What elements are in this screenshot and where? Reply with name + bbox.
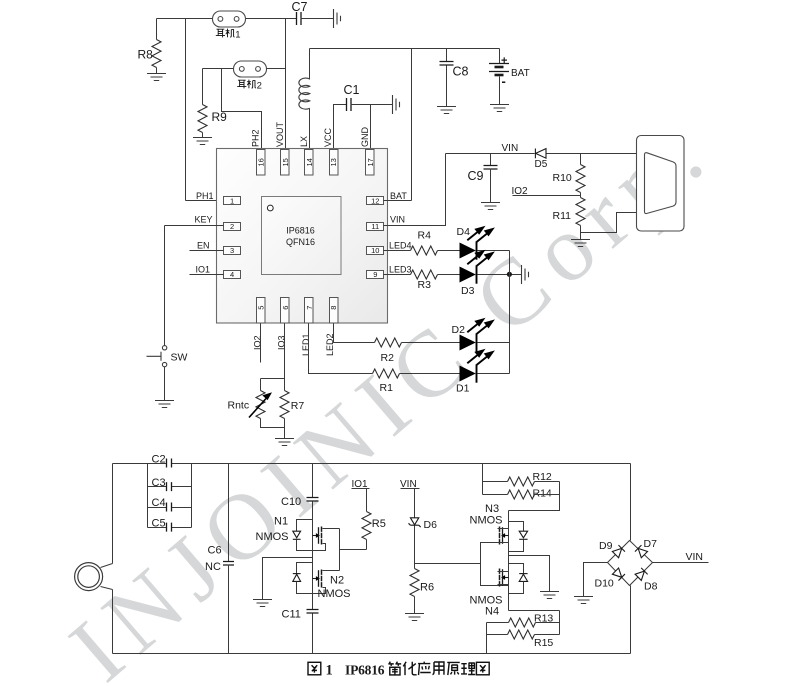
pin 14 — [305, 150, 314, 176]
wire R3 to D3 — [438, 274, 460, 276]
svg-text:R8: R8 — [138, 48, 154, 62]
wire C5 row — [148, 527, 192, 529]
svg-text:12: 12 — [371, 197, 379, 206]
diode D8 — [635, 568, 648, 581]
pin 16 — [257, 150, 266, 176]
svg-text:17: 17 — [366, 158, 375, 166]
wire node to N3N4 box — [415, 563, 481, 565]
wire N3 diode branch top — [509, 522, 524, 532]
wire N4 drain — [498, 571, 509, 573]
label 耳机2 — [237, 80, 256, 89]
ground C7 — [334, 9, 341, 28]
ground R9 — [193, 138, 212, 145]
svg-text:BAT: BAT — [390, 191, 407, 201]
wire VIN horizontal — [446, 153, 535, 155]
svg-text:C1: C1 — [344, 83, 360, 97]
svg-text:R14: R14 — [533, 488, 552, 500]
wire PH2 to pin 16 — [222, 69, 262, 150]
svg-text:5: 5 — [257, 306, 266, 310]
diode D5 — [535, 149, 546, 159]
junction node LED common — [507, 272, 512, 277]
wire N4 to R13R15 rail — [509, 610, 560, 612]
wire VIN to R10 — [580, 154, 582, 165]
switch SW — [147, 346, 167, 367]
wire bridge VIN output — [653, 562, 709, 564]
svg-text:N1: N1 — [274, 516, 288, 528]
svg-text:8: 8 — [329, 306, 338, 310]
pin 2 — [224, 223, 241, 231]
svg-text:R3: R3 — [418, 279, 432, 291]
svg-text:9: 9 — [373, 270, 377, 279]
capacitor C11 — [307, 610, 319, 614]
wire C9 to ground — [490, 169, 492, 203]
resistor R6 — [410, 569, 419, 597]
wire pin 10 LED4 — [384, 250, 411, 252]
svg-text:-: - — [502, 74, 506, 89]
wire node Rntc top — [261, 378, 285, 380]
capacitor C5 — [167, 523, 172, 532]
svg-text:R6: R6 — [420, 582, 434, 594]
wire D1 to bus — [478, 373, 510, 375]
wire KEY — [165, 225, 224, 227]
svg-text:C11: C11 — [282, 609, 301, 621]
wire R2 to D2 — [402, 342, 460, 344]
connector J1 — [637, 136, 685, 232]
svg-text:R7: R7 — [291, 400, 305, 412]
wire R8 to ground — [156, 68, 158, 74]
resistor R11 — [576, 198, 585, 226]
svg-text:D6: D6 — [424, 519, 438, 531]
ground C9 — [481, 203, 500, 210]
ground N3 — [540, 592, 559, 599]
svg-text:D3: D3 — [461, 285, 475, 297]
ground R7 — [275, 439, 294, 446]
svg-text:PH2: PH2 — [251, 129, 261, 147]
wire 耳机2 right — [267, 68, 286, 70]
svg-text:NMOS: NMOS — [256, 531, 289, 543]
wire N3N4 box — [481, 543, 509, 586]
svg-text:10: 10 — [371, 246, 379, 255]
wire N3 diode branch bottom — [509, 540, 524, 552]
wire cap bank right rail — [191, 464, 193, 528]
ground R11 — [571, 240, 590, 247]
wire VIN to C9 — [490, 154, 492, 166]
capacitor C6 — [223, 562, 234, 566]
wire C7 to ground — [301, 18, 334, 20]
wire R15 right — [535, 634, 560, 636]
ground SW — [155, 401, 174, 408]
wire pin 11 VIN up — [384, 154, 446, 226]
capacitor C4 — [167, 503, 172, 512]
svg-text:VIN: VIN — [686, 551, 704, 563]
wire pin 12 BAT — [384, 200, 412, 202]
diode N1 body — [293, 531, 301, 539]
diode N3 body — [519, 531, 527, 539]
svg-text:Rntc: Rntc — [228, 400, 250, 412]
diode D9 — [612, 545, 625, 558]
wire IO1 underline — [352, 488, 370, 490]
svg-text:D8: D8 — [644, 581, 658, 593]
wire R1 to D1 — [400, 373, 460, 375]
ground R8 — [147, 74, 166, 81]
svg-text:C2: C2 — [152, 454, 166, 466]
ground N1N2 — [253, 600, 272, 607]
wire C4 row — [148, 507, 192, 509]
svg-text:R1: R1 — [380, 382, 394, 394]
coil TX antenna — [75, 563, 103, 591]
wire N3 source — [498, 542, 509, 544]
pin 15 — [281, 150, 290, 176]
wire EN stub — [190, 250, 224, 252]
svg-text:LX: LX — [299, 136, 309, 147]
svg-text:IO2: IO2 — [512, 186, 529, 197]
wire R9 to ground — [202, 133, 204, 138]
wire rail to inductor — [309, 49, 311, 80]
resistor R9 — [198, 105, 207, 133]
capacitor C8 — [440, 62, 454, 66]
wire D4 to bus — [478, 250, 510, 252]
wire IO1 to R5 — [366, 489, 368, 512]
transistor N4 NMOS — [500, 569, 509, 587]
wire N1N2 midpoint to ground — [263, 558, 313, 600]
svg-text:VIN: VIN — [502, 143, 519, 154]
wire VIN underline — [401, 488, 420, 490]
zener diode D6 — [409, 518, 421, 527]
connector J1 contact — [645, 153, 677, 214]
LED D4 — [460, 227, 493, 259]
wire D3 to ground — [478, 274, 522, 276]
svg-text:D7: D7 — [644, 538, 658, 550]
wire N1 diode branch bottom — [297, 540, 313, 551]
svg-text:EN: EN — [197, 240, 210, 250]
wire SW to ground — [164, 367, 166, 401]
ground R6 — [405, 614, 424, 621]
svg-text:C4: C4 — [152, 497, 166, 509]
svg-text:C7: C7 — [292, 0, 308, 14]
svg-text:C6: C6 — [208, 545, 222, 557]
svg-text:N4: N4 — [485, 606, 499, 618]
svg-text:R10: R10 — [553, 172, 572, 184]
resistor R2 — [375, 338, 402, 347]
resistor R8 — [152, 40, 161, 68]
pin 11 — [367, 223, 384, 231]
resistor R13 — [509, 618, 536, 627]
wire box to R5 — [340, 549, 367, 551]
ground battery — [490, 105, 509, 112]
wire N4 diode branch top — [509, 564, 524, 574]
LED D3 — [460, 251, 493, 283]
wire to R9 — [202, 69, 204, 105]
wire N1 drain — [323, 528, 340, 530]
svg-text:R5: R5 — [372, 518, 386, 530]
U1 pin1 marker — [267, 205, 273, 211]
wire D6 down — [414, 526, 416, 564]
svg-text:SW: SW — [171, 352, 188, 364]
wire net PH1 top-left — [157, 18, 213, 20]
wire R14 right — [535, 494, 560, 496]
ground C8 — [437, 107, 456, 114]
wire R10 to node — [580, 193, 582, 198]
pin 4 — [224, 271, 241, 279]
resistor R3 — [411, 270, 438, 279]
svg-text:C5: C5 — [152, 517, 166, 529]
svg-text:C9: C9 — [468, 169, 484, 183]
wire pin 8 LED2 — [334, 324, 375, 343]
resistor R7 — [280, 391, 289, 419]
wire to R8 — [156, 19, 158, 40]
svg-text:+: + — [501, 55, 507, 67]
resistor R1 — [373, 369, 400, 378]
connector 耳机1 — [213, 11, 246, 27]
wire R12R14 right rail — [509, 482, 560, 511]
wire inductor to pin 14 LX — [309, 109, 311, 150]
wire C6 line upper — [228, 464, 230, 562]
wire R15 left — [487, 634, 508, 636]
pin 12 — [367, 197, 384, 205]
pin 9 — [367, 271, 384, 279]
wire coil stubs — [101, 564, 113, 590]
svg-text:D1: D1 — [456, 383, 470, 395]
svg-text:IP6816: IP6816 — [286, 226, 315, 236]
wire D2 to bus — [478, 342, 510, 344]
op-amp U1 IP6816 QFN16 body — [217, 149, 388, 324]
transistor N3 NMOS — [500, 527, 509, 545]
svg-text:C8: C8 — [453, 65, 469, 79]
wire pin 5 IO2 stub — [260, 324, 262, 363]
wire R4 to D4 — [438, 250, 460, 252]
svg-text:PH1: PH1 — [196, 191, 214, 201]
svg-text:VIN: VIN — [390, 214, 405, 224]
resistor R14 — [508, 490, 535, 499]
svg-text:IO2: IO2 — [253, 335, 263, 350]
wire pin 7 LED1 — [309, 324, 373, 374]
wire R13R15 right rail — [559, 611, 561, 635]
wire 耳机2 left — [203, 68, 234, 70]
wire 耳机1 to C7 — [246, 18, 297, 20]
pin 3 — [224, 247, 241, 255]
svg-text:IO1: IO1 — [196, 264, 211, 274]
battery BAT — [489, 64, 509, 76]
diode D7 — [635, 545, 648, 558]
wire N2 diode branch bottom — [297, 582, 313, 594]
svg-text:R4: R4 — [418, 230, 432, 242]
wire N4 diode branch bottom — [509, 582, 524, 594]
svg-text:14: 14 — [305, 158, 314, 166]
svg-text:D4: D4 — [457, 226, 471, 238]
wire R14 left — [483, 494, 508, 496]
wire KEY to SW — [164, 226, 166, 346]
wire bottom box left edge — [112, 464, 114, 654]
svg-text:IP6816: IP6816 — [345, 663, 385, 678]
transistor N1 NMOS — [313, 527, 322, 545]
caption 图1 IP6816 简化应用原理图 — [308, 662, 489, 679]
svg-text:2: 2 — [230, 222, 234, 231]
svg-text:6: 6 — [281, 306, 290, 310]
wire N4 source — [498, 584, 509, 586]
diode N4 body — [519, 574, 527, 582]
svg-text:N2: N2 — [330, 575, 344, 587]
wire N1 source — [313, 544, 326, 551]
wire N3N4 main line — [508, 511, 510, 611]
svg-text:7: 7 — [305, 306, 314, 310]
pin 6 — [281, 298, 290, 324]
ground bridge — [574, 597, 593, 604]
wire center line bottom — [312, 614, 314, 654]
transistor N2 NMOS — [313, 570, 322, 588]
svg-text:1: 1 — [235, 30, 240, 41]
wire to R6 — [414, 564, 416, 569]
wire VOUT vertical to pin 15 — [285, 19, 287, 150]
wire bridge to ground — [584, 563, 608, 597]
svg-text:4: 4 — [230, 270, 234, 279]
wire N2 drain — [323, 570, 340, 572]
wire battery to ground — [499, 77, 501, 105]
wire C8 to ground — [446, 66, 448, 107]
pin 5 — [257, 298, 266, 324]
ground LED common — [522, 265, 529, 284]
resistor R5 — [362, 512, 371, 540]
svg-text:1: 1 — [326, 663, 333, 679]
svg-text:2: 2 — [257, 81, 262, 92]
svg-text:D10: D10 — [595, 578, 614, 590]
connector 耳机2 — [234, 61, 267, 77]
wire bottom box bottom edge — [113, 653, 631, 655]
svg-text:LED3: LED3 — [389, 265, 412, 275]
svg-text:13: 13 — [329, 158, 338, 166]
wire node Rntc bottom — [261, 419, 285, 428]
ground C1 — [393, 95, 400, 114]
svg-text:D2: D2 — [452, 324, 466, 336]
pin 17 — [366, 150, 375, 176]
wire to connector bottom — [581, 213, 638, 233]
svg-text:IO3: IO3 — [277, 335, 287, 350]
svg-text:NC: NC — [205, 561, 221, 573]
diode D10 — [612, 568, 625, 581]
svg-text:NMOS: NMOS — [318, 588, 351, 600]
svg-text:1: 1 — [230, 197, 234, 206]
svg-text:16: 16 — [257, 158, 266, 166]
pin 1 — [224, 197, 241, 205]
wire N3 to ground — [509, 556, 550, 592]
wire R12 right — [535, 481, 560, 483]
svg-text:VOUT: VOUT — [275, 121, 285, 147]
wire rail to pin 12 BAT — [411, 49, 413, 201]
wire pin 6 IO3 down — [284, 324, 286, 379]
inductor L1 — [299, 78, 310, 109]
wire rail to C8 — [446, 49, 448, 62]
pin 13 — [330, 150, 339, 176]
wire PH1 to pin 1 — [186, 200, 224, 202]
LED D1 — [460, 350, 493, 382]
resistor R10 — [576, 165, 585, 193]
resistor R15 — [508, 630, 535, 639]
svg-text:LED1: LED1 — [301, 333, 311, 356]
wire N2 diode branch top — [297, 563, 313, 574]
wire N1-N2 box right edge — [339, 529, 341, 571]
pin 7 — [305, 298, 314, 324]
capacitor C3 — [167, 482, 172, 491]
wire N3 drain — [498, 528, 509, 530]
wire C6 line lower — [228, 565, 230, 654]
wire R13 right — [536, 622, 560, 624]
capacitor C7 — [297, 12, 302, 25]
wire center line top — [312, 464, 314, 498]
wire bottom box right edge — [630, 464, 632, 654]
pin 10 — [367, 247, 384, 255]
resistor R12 — [508, 477, 535, 486]
wire net IO2 — [513, 195, 581, 197]
svg-text:R9: R9 — [212, 110, 228, 124]
wire top rail BAT net — [310, 48, 500, 50]
label 耳机1 — [216, 29, 235, 38]
svg-text:D5: D5 — [535, 159, 548, 170]
Rntc arrow — [249, 394, 270, 418]
wire LED cathode bus — [509, 251, 511, 374]
wire D5 to connector — [547, 153, 638, 155]
svg-text:LED4: LED4 — [389, 240, 412, 250]
wire bottom box top edge — [113, 463, 631, 465]
svg-text:R15: R15 — [534, 637, 553, 649]
wire pin 9 LED3 — [384, 274, 411, 276]
wire R6 to ground — [414, 597, 416, 614]
wire C3 row — [148, 486, 192, 488]
pin 8 — [330, 298, 339, 324]
capacitor C9 — [484, 166, 498, 170]
svg-text:BAT: BAT — [511, 68, 530, 79]
svg-text:QFN16: QFN16 — [286, 237, 315, 247]
wire center line middle — [312, 502, 314, 610]
wire R12R14 left rail — [482, 464, 484, 495]
wire N2 source — [313, 588, 326, 594]
wire to Rntc — [260, 379, 262, 391]
wire R13R15 left rail — [486, 623, 488, 654]
svg-text:C3: C3 — [152, 477, 166, 489]
wire R5 down — [366, 540, 368, 550]
svg-text:C10: C10 — [281, 496, 301, 508]
wire PH1 vertical — [185, 19, 187, 201]
svg-text:15: 15 — [281, 158, 290, 166]
svg-text:KEY: KEY — [195, 214, 213, 224]
U1 inner die — [262, 197, 342, 275]
capacitor C1 — [347, 98, 352, 111]
wire IO1 stub — [190, 274, 224, 276]
svg-text:GND: GND — [360, 127, 370, 148]
wire R12 left — [483, 481, 508, 483]
resistor R4 — [411, 246, 438, 255]
wire cap bank left rail — [147, 464, 149, 528]
diode N2 body — [293, 574, 301, 582]
wire R13 left — [487, 622, 509, 624]
LED D2 — [460, 319, 493, 351]
wire N1 diode branch top — [297, 520, 313, 532]
thermistor Rntc — [256, 391, 265, 419]
svg-text:VCC: VCC — [323, 127, 333, 147]
svg-text:N3: N3 — [485, 503, 499, 515]
wire bridge diamond — [608, 541, 653, 586]
capacitor C10 — [307, 498, 319, 502]
svg-text:R11: R11 — [553, 210, 572, 222]
wire VCC to C1 — [334, 105, 347, 150]
wire rail to battery BAT — [499, 49, 501, 64]
wire C1 to ground and pin 17 — [351, 105, 393, 150]
capacitor C2 — [167, 459, 172, 468]
wire R7 leads — [284, 379, 286, 439]
svg-text:R2: R2 — [381, 352, 395, 364]
svg-text:3: 3 — [230, 246, 234, 255]
wire R11 down — [580, 226, 582, 240]
svg-text:NMOS: NMOS — [470, 515, 503, 527]
wire VIN to D6 — [414, 489, 416, 518]
